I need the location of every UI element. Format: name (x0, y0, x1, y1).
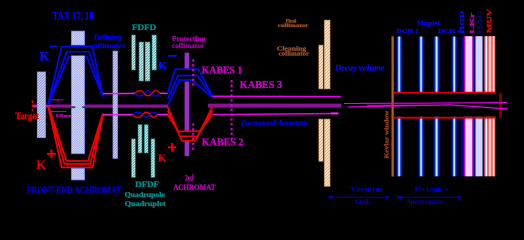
final collimator (tan hatched bar) (324, 20, 330, 187)
label Final collimator (278, 18, 309, 29)
svg-text:collimator: collimator (90, 42, 126, 50)
DFDF quadrupole magnets (lower group, teal hatched bars) (132, 125, 155, 178)
KABES 3 detector (dashed magenta line, on axis) (231, 80, 233, 142)
DCH 3 drift chamber (433, 37, 439, 177)
svg-text:collimator: collimator (172, 41, 205, 50)
svg-text:DCH 1: DCH 1 (396, 28, 419, 35)
label Cleaning collimator (277, 45, 309, 57)
wire: primary proton beam axis (thick dark purple band) (33, 104, 341, 108)
svg-text:KABES 2: KABES 2 (202, 137, 244, 148)
KABES 1 detector (dashed magenta line, upper beam) (192, 60, 194, 88)
wire: angle annotation near target (magenta) (51, 100, 74, 118)
protecting collimator bar (purple, with beam holes) (185, 53, 190, 156)
label DFDF Quadrupole Quadruplet (125, 179, 167, 208)
svg-text:FRONT-END ACHROMAT: FRONT-END ACHROMAT (27, 185, 122, 196)
cleaning collimator (tan hatched bar) (319, 45, 324, 162)
svg-text:LKr: LKr (469, 12, 476, 33)
svg-text:HOD: HOD (459, 10, 466, 34)
svg-text:K: K (36, 158, 46, 172)
label K- (middle) (158, 55, 177, 72)
HAC hadron calorimeter (lavender bar with navy border) (474, 36, 484, 176)
label Defining collimator (90, 34, 126, 51)
svg-text:DFDF: DFDF (135, 179, 159, 189)
FDFD quadrupole focusing diamonds on lower envelope (133, 112, 158, 117)
svg-text:FDFD: FDFD (132, 22, 156, 32)
Kevlar window (orange line) (392, 36, 394, 176)
svg-text:Quadruplet: Quadruplet (125, 199, 167, 208)
label K+ (left) (36, 150, 56, 172)
svg-text:focused beams: focused beams (241, 118, 308, 127)
label K+ (middle) (158, 143, 176, 164)
LKr calorimeter (pink bar with magenta border) (464, 36, 474, 176)
svg-text:Magnet: Magnet (417, 20, 441, 27)
svg-text:TAX 17, 18: TAX 17, 18 (53, 8, 94, 22)
node: target position (red dashed tick) (31, 100, 33, 111)
svg-text:tank: tank (355, 198, 371, 206)
DCH 1 drift chamber (396, 37, 402, 177)
svg-text:KABES 3: KABES 3 (240, 80, 282, 91)
K+ beam envelope achromat 2 (red) (167, 106, 212, 141)
label Vacuum tank with extent arrow (328, 185, 390, 206)
wire: focused beams through decay volume to focus (magenta bundle) (344, 103, 508, 109)
svg-text:collimator: collimator (278, 23, 309, 29)
KABES 2 detector (dashed magenta line, lower beam) (192, 124, 194, 152)
svg-text:K: K (40, 49, 50, 63)
svg-text:ACHROMAT: ACHROMAT (173, 182, 216, 192)
DCH 4 drift chamber (452, 37, 458, 177)
K- beam envelope achromat 2 (blue) (167, 69, 212, 104)
svg-text:Vacuum: Vacuum (350, 185, 383, 193)
label Protecting collimator (172, 34, 206, 50)
svg-text:Spectrometer: Spectrometer (407, 198, 444, 206)
svg-text:DCH 4: DCH 4 (438, 28, 462, 35)
wire: beam envelope lines between achromats (magenta) (103, 93, 168, 115)
MUV muon veto (salmon bar with white stripes) (484, 36, 495, 176)
svg-text:He tank +: He tank + (415, 185, 449, 193)
collimator bar after target (37, 72, 45, 138)
K+ beam envelope achromat 1 (red) (48, 105, 103, 167)
svg-text:Target: Target (15, 111, 39, 122)
svg-text:Defining: Defining (94, 34, 123, 42)
DCH 2 drift chamber (418, 37, 424, 177)
svg-text:Quadrupole: Quadrupole (125, 190, 166, 199)
beam corridor through detectors (black with red walls) (393, 92, 502, 119)
svg-text:Decay volume: Decay volume (334, 64, 385, 73)
label He tank + Spectrometer with extent arrow (397, 185, 463, 206)
K- beam envelope achromat 1 (blue) (48, 47, 103, 105)
label 2nd ACHROMAT (173, 172, 216, 191)
svg-text:HAC: HAC (477, 11, 484, 34)
HOD hodoscope (navy bar) (461, 36, 463, 176)
svg-text:MUV: MUV (486, 8, 493, 33)
svg-text:Kevlar window: Kevlar window (385, 109, 391, 158)
svg-text:K: K (158, 152, 167, 164)
wire: upper beam envelope to final collimator (magenta) (212, 96, 341, 114)
svg-text:collimator: collimator (279, 50, 310, 57)
svg-text:0.36 mrad: 0.36 mrad (56, 113, 73, 118)
svg-text:KABES 1: KABES 1 (202, 65, 243, 76)
defining collimator bar (113, 51, 118, 159)
label K- (left) (40, 46, 58, 64)
TAX 17,18 absorber (hatched bar with beam holes) (71, 31, 87, 180)
FDFD quadrupole magnets (upper group, teal hatched bars) (132, 35, 157, 81)
svg-text:K: K (158, 60, 167, 72)
FDFD quadrupole focusing diamonds on upper envelope (135, 91, 160, 96)
